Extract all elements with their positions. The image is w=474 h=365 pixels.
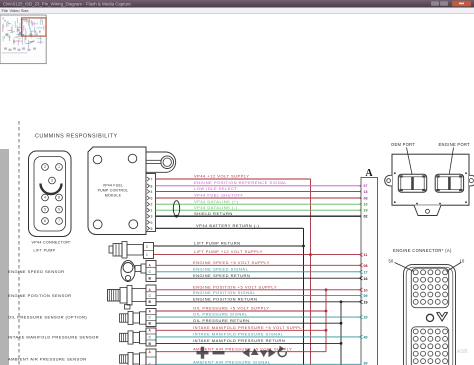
svg-text:40: 40 <box>364 336 368 340</box>
OEM port <box>398 174 426 192</box>
svg-text:02: 02 <box>364 215 368 219</box>
label 10 with leader <box>447 259 465 272</box>
svg-text:30: 30 <box>364 362 368 365</box>
wire VP44 datalink (-) <box>156 205 363 212</box>
svg-text:9: 9 <box>151 221 153 225</box>
oil pressure sensor connector <box>146 309 156 327</box>
svg-text:INTAKE MANIFOLD PRESSURE RE: INTAKE MANIFOLD PRESSURE RETURN <box>193 338 285 343</box>
lower pin field <box>411 327 448 365</box>
menu bar <box>0 8 474 14</box>
svg-text:ENGINE PORT: ENGINE PORT <box>439 142 471 147</box>
svg-text:1: 1 <box>58 165 60 169</box>
engine position sensor connector <box>146 285 156 306</box>
svg-text:3: 3 <box>151 215 153 219</box>
+5V sensor supply bus <box>325 288 328 351</box>
ECM bottom tab <box>414 205 441 215</box>
svg-text:OIL PRESSURE RETURN: OIL PRESSURE RETURN <box>193 318 250 323</box>
vertical battery return bus <box>303 228 305 365</box>
wire lift pump return <box>154 241 304 246</box>
svg-text:VP44 FUEL SHUTOFF: VP44 FUEL SHUTOFF <box>194 193 243 198</box>
wire shield return <box>156 211 363 218</box>
wire VP44 battery return <box>156 223 304 228</box>
wire engine speed +5 volt supply <box>156 260 363 267</box>
svg-text:AMBIENT AIR PRESSURE +5 VO: AMBIENT AIR PRESSURE +5 VOLT SUPPLY <box>193 346 292 351</box>
svg-text:ENGINE SPEED SIGNAL: ENGINE SPEED SIGNAL <box>193 266 249 271</box>
svg-text:PUMP CONTROL: PUMP CONTROL <box>98 189 129 193</box>
svg-text:AMBIENT AIR PRESSURE SIGNAL: AMBIENT AIR PRESSURE SIGNAL <box>193 359 271 364</box>
svg-text:ASB: ASB <box>457 349 468 355</box>
label 50 with leader <box>389 259 415 272</box>
svg-text:AMBIENT AIR PRESSURE SENSOR: AMBIENT AIR PRESSURE SENSOR <box>8 357 87 362</box>
svg-text:1: 1 <box>151 209 153 213</box>
viewer zoom/pan controls <box>197 346 287 359</box>
svg-text:2: 2 <box>146 245 148 249</box>
svg-text:5: 5 <box>44 208 46 212</box>
svg-text:CMA6125_ISB_23_Pin_Wiring_Diag: CMA6125_ISB_23_Pin_Wiring_Diagram - Flas… <box>3 1 131 6</box>
svg-text:File: File <box>2 8 9 13</box>
wire intake manifold pressure return <box>156 338 341 343</box>
vertical branch +12V to lift pump supply <box>310 179 312 365</box>
svg-text:INTAKE MANIFOLD PRESSURE +5: INTAKE MANIFOLD PRESSURE +5 VOLT SUPPLY <box>193 325 305 330</box>
engine position sensor icon <box>108 286 147 310</box>
svg-text:08: 08 <box>364 196 368 200</box>
intake manifold sensor connector <box>146 328 156 346</box>
svg-text:10: 10 <box>364 288 368 292</box>
thumbnail selection rectangle <box>22 18 46 36</box>
svg-text:4: 4 <box>151 190 153 194</box>
svg-text:LOW IDLE SELECT: LOW IDLE SELECT <box>194 186 237 191</box>
svg-text:16: 16 <box>364 277 368 281</box>
svg-text:6: 6 <box>151 197 153 201</box>
connector keying chevron <box>437 312 448 321</box>
svg-text:OEM PORT: OEM PORT <box>391 142 415 147</box>
shield ellipse around datalink pair <box>173 201 179 218</box>
wire oil pressure return <box>156 318 341 323</box>
svg-text:09: 09 <box>364 294 368 298</box>
wire engine speed signal <box>156 266 363 273</box>
svg-text:4: 4 <box>44 196 46 200</box>
module pin strip <box>146 174 156 232</box>
svg-text:ENGINE SPEED +5 VOLT SUPPL: ENGINE SPEED +5 VOLT SUPPLY <box>193 260 270 265</box>
svg-text:ENGINE POSITION SIGNAL: ENGINE POSITION SIGNAL <box>193 290 256 295</box>
svg-text:19: 19 <box>364 209 368 213</box>
svg-text:07: 07 <box>364 184 368 188</box>
sensor return bus <box>340 300 343 365</box>
ambient air pressure sensor icon <box>120 352 147 365</box>
svg-text:ENGINE SPEED SENSOR: ENGINE SPEED SENSOR <box>8 269 65 274</box>
svg-text:LIFT PUMP: LIFT PUMP <box>34 249 56 253</box>
window buttons <box>431 1 471 7</box>
stage edge strip <box>0 149 9 365</box>
wire engine position return <box>156 296 363 303</box>
svg-text:19: 19 <box>364 300 368 304</box>
svg-text:ENGINE POSITION +5 VOLT SU: ENGINE POSITION +5 VOLT SUPPLY <box>193 284 277 289</box>
svg-text:20: 20 <box>364 316 368 320</box>
VP44 connector (9-pin) <box>29 151 72 237</box>
svg-text:VP44 +12 VOLT SUPPLY: VP44 +12 VOLT SUPPLY <box>194 173 249 178</box>
wire ambient air pressure +5 volt supply <box>156 346 326 351</box>
svg-text:ENGINE POSITION RETURN: ENGINE POSITION RETURN <box>193 296 257 301</box>
svg-text:ENGINE POSITION SENSOR: ENGINE POSITION SENSOR <box>8 293 71 298</box>
svg-text:ENGINE SPEED RETURN: ENGINE SPEED RETURN <box>193 273 250 278</box>
svg-text:5: 5 <box>151 227 153 231</box>
svg-text:VP44 FUEL: VP44 FUEL <box>103 184 124 188</box>
svg-text:VP44 DATALINK (+): VP44 DATALINK (+) <box>194 199 239 204</box>
wire engine position signal <box>156 290 363 297</box>
svg-text:Video Size: Video Size <box>10 8 30 13</box>
A-bar upper pin numbers <box>364 184 368 218</box>
wire engine position +5 volt supply <box>156 284 363 291</box>
svg-text:INTAKE MANIFOLD PRESSURE SI: INTAKE MANIFOLD PRESSURE SIGNAL <box>193 332 284 337</box>
svg-text:OIL PRESSURE SENSOR (OPTION: OIL PRESSURE SENSOR (OPTION) <box>8 315 87 320</box>
lift pump 2-pin connector <box>144 243 154 259</box>
A-bar pins for engine speed <box>364 264 368 281</box>
wire VP44 +12 volt supply <box>156 173 311 179</box>
junction battery return / lift pump return <box>302 245 305 248</box>
svg-text:1: 1 <box>146 253 148 257</box>
svg-text:7: 7 <box>151 178 153 182</box>
wire intake manifold pressure signal <box>156 332 363 339</box>
ECM module box <box>392 154 469 205</box>
svg-text:LIFT PUMP RETURN: LIFT PUMP RETURN <box>194 241 241 246</box>
svg-text:08: 08 <box>364 264 368 268</box>
svg-text:2: 2 <box>151 203 153 207</box>
svg-text:3: 3 <box>51 179 53 183</box>
svg-text:17: 17 <box>364 270 368 274</box>
label ENGINE PORT <box>439 142 471 174</box>
wire oil pressure +5 volt supply <box>156 306 326 311</box>
wire engine position reference signal <box>156 180 363 187</box>
svg-text:7: 7 <box>58 219 60 223</box>
thumbnail overview panel <box>0 15 46 64</box>
wire VP44 fuel shutoff <box>156 193 363 200</box>
svg-text:OIL PRESSURE +5 VOLT SUPPL: OIL PRESSURE +5 VOLT SUPPLY <box>193 306 269 311</box>
A-bar pins for engine position <box>364 288 368 304</box>
engine speed sensor connector <box>146 261 156 282</box>
svg-text:SHIELD RETURN: SHIELD RETURN <box>194 211 233 216</box>
svg-text:ENGINE CONNECTOR* (A): ENGINE CONNECTOR* (A) <box>393 248 452 253</box>
svg-text:VP44 CONNECTOR*: VP44 CONNECTOR* <box>32 241 72 245</box>
svg-text:2: 2 <box>44 165 46 169</box>
wire low idle select <box>156 186 363 193</box>
label OEM PORT <box>391 142 415 174</box>
svg-text:18: 18 <box>364 190 368 194</box>
ambient air sensor connector <box>146 349 156 365</box>
engine connector shell <box>404 265 456 365</box>
wire ambient air pressure signal <box>156 359 361 364</box>
title bar <box>0 0 474 8</box>
ECM right mounting ear <box>469 175 474 186</box>
VP44 fuel pump control module <box>88 147 146 235</box>
junction +12V / lift pump supply <box>309 253 312 256</box>
svg-text:6: 6 <box>44 219 46 223</box>
intake manifold pressure sensor icon <box>120 331 147 344</box>
wire VP44 datalink (+) <box>156 199 363 206</box>
svg-text:9: 9 <box>58 208 60 212</box>
svg-text:MODULE: MODULE <box>105 194 122 198</box>
ECM connector A terminal bar <box>361 168 378 365</box>
lift pump icon <box>109 242 143 259</box>
svg-text:11: 11 <box>364 253 368 257</box>
svg-text:A: A <box>365 168 373 179</box>
wire intake manifold pressure +5 volt supply <box>156 325 326 330</box>
svg-text:8: 8 <box>151 184 153 188</box>
svg-text:VP44 BATTERY RETURN (-): VP44 BATTERY RETURN (-) <box>196 223 259 228</box>
wire lift pump +12 volt supply <box>154 249 363 256</box>
svg-text:8: 8 <box>58 196 60 200</box>
svg-text:VP44 DATALINK (-): VP44 DATALINK (-) <box>194 205 238 210</box>
engine speed sensor icon <box>121 261 146 282</box>
upper pin field <box>411 268 448 308</box>
svg-text:ENGINE POSITION REFERENCE S: ENGINE POSITION REFERENCE SIGNAL <box>194 180 287 185</box>
wire oil pressure signal <box>156 312 363 319</box>
wire engine speed return <box>156 273 363 280</box>
engine port <box>435 174 463 192</box>
oil pressure sensor icon <box>120 311 147 324</box>
connector keying circle <box>426 314 433 321</box>
svg-text:50: 50 <box>389 259 394 264</box>
svg-text:10: 10 <box>364 203 368 207</box>
ECM left mounting ear <box>385 175 392 186</box>
svg-text:LIFT PUMP +12 VOLT SUPPLY: LIFT PUMP +12 VOLT SUPPLY <box>194 249 263 254</box>
svg-text:INTAKE MANIFOLD PRESSURE SE: INTAKE MANIFOLD PRESSURE SENSOR <box>8 335 99 340</box>
svg-text:OIL PRESSURE SIGNAL: OIL PRESSURE SIGNAL <box>193 312 248 317</box>
module arm with ring <box>147 152 176 172</box>
responsibility boundary dashed line <box>18 121 20 365</box>
svg-text:CUMMINS RESPONSIBILITY: CUMMINS RESPONSIBILITY <box>35 134 118 140</box>
